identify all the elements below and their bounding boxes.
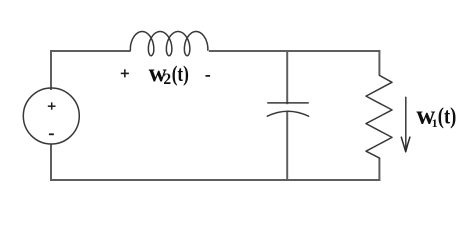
svg-text:(t): (t) <box>172 61 189 86</box>
arrow for w1(t) shaft <box>405 97 407 150</box>
wire capacitor branch upper <box>286 51 288 105</box>
svg-text:2: 2 <box>163 71 171 88</box>
arrow head <box>401 137 410 152</box>
wire right vertical lower <box>378 158 380 180</box>
wire capacitor branch lower <box>286 111 288 179</box>
voltage source VS circle <box>23 88 79 144</box>
wire left vertical upper <box>50 50 52 90</box>
svg-text:(t): (t) <box>438 104 457 130</box>
capacitor C1 bottom plate (arc) <box>267 111 308 116</box>
wire right vertical upper <box>378 51 380 76</box>
svg-text:1: 1 <box>432 116 438 130</box>
source polarity plus <box>48 102 56 109</box>
capacitor C1 top plate <box>268 102 308 104</box>
resistor R1 zigzag <box>366 75 392 158</box>
wire bottom horizontal <box>50 179 380 181</box>
source polarity minus <box>49 133 54 135</box>
label minus of w2 <box>206 75 211 77</box>
inductor L1 <box>130 32 208 56</box>
wire top-left horizontal <box>50 50 131 52</box>
label plus of w2 <box>121 69 129 77</box>
wire top horizontal right of inductor <box>209 50 381 52</box>
wire left vertical lower <box>50 144 52 181</box>
